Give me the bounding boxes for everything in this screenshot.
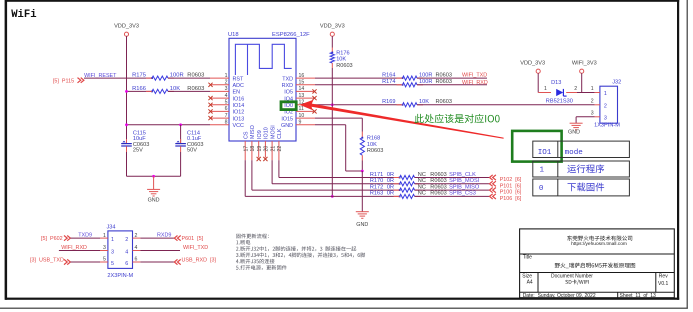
svg-text:2: 2 [604,104,607,110]
svg-text:1: 1 [604,91,607,97]
svg-text:GND: GND [568,130,580,136]
capacitor C114 [175,130,203,153]
svg-text:R163: R163 [370,191,383,197]
svg-text:R0603: R0603 [430,172,446,178]
svg-text:VDD_3V3: VDD_3V3 [320,24,345,30]
wire R168 to ground [361,161,364,212]
net label SPIB_CLK [449,172,476,178]
title label [523,255,532,261]
svg-text:P100 [6]: P100 [6] [500,190,522,196]
svg-text:22: 22 [277,146,283,152]
svg-text:D13: D13 [551,80,561,86]
resistor R171 [370,172,447,180]
net label WIFI_RESET [84,73,117,79]
svg-text:NC: NC [418,184,426,190]
resistor R166 [132,86,204,94]
port P101 [490,181,522,189]
svg-text:0R: 0R [387,184,394,190]
pin 4 J34 [133,245,141,251]
net label TXD9 [78,233,92,239]
wire R176 down to SPIB_CS3 row [331,68,334,198]
pin 13 IO4 [284,93,316,102]
svg-text:6: 6 [225,106,228,112]
wire VDD to diode [538,73,551,92]
svg-text:GND: GND [148,197,160,203]
svg-text:P102 [6]: P102 [6] [500,177,522,183]
svg-text:100R: 100R [419,79,432,85]
date cell [523,293,596,299]
svg-text:mode: mode [565,149,584,157]
svg-text:R0603: R0603 [430,178,446,184]
wire WIFI_RXD J34 [59,250,100,252]
svg-text:P601 [5]: P601 [5] [182,236,204,242]
svg-text:4: 4 [225,93,228,99]
port P102 [490,175,522,183]
pin 20 IO10 [263,127,269,161]
resistor R164 [382,72,452,80]
svg-text:2: 2 [135,233,138,239]
rev cell [658,274,669,287]
green highlight box IO0 pin [281,102,296,110]
svg-text:WIFI_TXD: WIFI_TXD [183,245,208,251]
wire USB_RXD [140,261,174,263]
svg-text:15: 15 [299,80,305,86]
pin 2 J34 [133,233,141,239]
wire R164 to WIFI_TXD [417,77,487,79]
connector J32 [594,80,621,129]
svg-text:16: 16 [299,73,305,79]
svg-text:R0603: R0603 [436,99,452,105]
svg-text:2: 2 [125,237,128,243]
svg-text:3: 3 [225,86,228,92]
svg-text:3: 3 [103,245,106,251]
pin 14 IO5 [284,86,316,95]
svg-text:RST: RST [233,76,244,82]
table row 1 run [533,161,630,177]
pin 22 CLK [277,128,283,160]
svg-text:1: 1 [540,167,545,175]
wire VDD rail vertical [126,36,128,143]
svg-text:IO5: IO5 [284,90,293,96]
svg-text:10K: 10K [367,142,377,148]
net label RXD9 [157,233,171,239]
svg-text:3: 3 [604,115,607,121]
wire diode to J32 pin 1 [577,73,595,92]
svg-text:R0603: R0603 [187,72,204,78]
resistor R170 [370,178,447,186]
pin 19 IO9 [257,130,263,161]
pin 2 J32 [591,99,600,105]
svg-text:100R: 100R [419,72,432,78]
svg-text:13: 13 [299,93,305,99]
power VDD_3V3 right [520,61,545,74]
svg-text:R0603: R0603 [367,148,383,154]
svg-text:3: 3 [591,111,594,117]
svg-text:1: 1 [225,73,228,79]
wire WIFI_TXD J34 [140,250,180,252]
connector J34 [107,225,134,279]
antenna meander [235,44,291,75]
port P115 WIFI_RESET [53,78,84,85]
svg-text:IO15: IO15 [281,116,293,122]
svg-text:R169: R169 [382,99,395,105]
svg-text:VDD_3V3: VDD_3V3 [520,61,545,67]
wire TXD row [315,77,401,79]
svg-text:J32: J32 [612,80,621,86]
wire J32 pin 3 to ground [576,117,595,123]
svg-text:R176: R176 [336,51,349,57]
svg-text:IO10: IO10 [264,127,270,139]
svg-text:6: 6 [135,257,138,263]
pin 9 GND [281,120,315,129]
net label WIFI_TXD J34 [183,245,208,251]
net label WIFI_RXD J34 [61,245,87,251]
svg-text:ADC: ADC [233,83,244,89]
net label SPIB_MOSI [449,178,480,184]
svg-text:https://yehuosm.tmall.com: https://yehuosm.tmall.com [571,241,627,247]
svg-text:TXD: TXD [282,76,293,82]
svg-text:21: 21 [270,146,276,152]
pin 5 J34 [100,257,108,263]
pin 6 IO12 [208,106,244,115]
pin 11 IO2 [284,106,316,115]
svg-text:SPIB_CS3: SPIB_CS3 [449,191,476,197]
svg-text:1X3PIN-M: 1X3PIN-M [594,123,620,129]
svg-text:100R: 100R [170,72,184,78]
svg-text:GND: GND [281,123,293,129]
svg-text:2: 2 [591,99,594,105]
svg-text:RXD9: RXD9 [157,233,171,239]
ground J32 [568,123,583,136]
pin 3 J32 [591,111,600,117]
firmware update notes [236,234,365,270]
resistor R175 [132,72,204,80]
svg-text:4: 4 [125,249,128,255]
ground middle [356,212,369,228]
svg-text:VCC: VCC [233,123,244,129]
wire SPIB_MOSI to port [415,183,490,185]
wire R166 row [125,90,152,93]
resistor R168 [360,132,383,161]
svg-text:WIFI_3V3: WIFI_3V3 [572,61,597,67]
svg-text:GND: GND [356,222,368,228]
svg-text:R0603: R0603 [436,72,452,78]
svg-text:WIFI_TXD: WIFI_TXD [462,72,487,78]
svg-text:Title: Title [523,255,532,261]
svg-text:NC: NC [418,172,426,178]
svg-text:R168: R168 [367,136,380,142]
pin 1 J32 [591,86,600,92]
svg-text:IO14: IO14 [233,103,245,109]
svg-text:Date:: Date: [523,293,535,299]
svg-text:10K: 10K [336,57,346,63]
svg-text:1: 1 [591,86,594,92]
pin 6 J34 [133,257,141,263]
pin 7 IO13 [208,113,244,122]
svg-text:R0603: R0603 [430,184,446,190]
svg-text:NC: NC [418,178,426,184]
svg-text:[3] USB_TXD: [3] USB_TXD [30,258,64,264]
port USB_TXD [30,258,70,265]
schematic title [555,263,635,269]
svg-text:RXD: RXD [282,83,293,89]
port USB_RXD [174,258,216,265]
svg-text:7: 7 [225,113,228,119]
svg-text:[5] P115: [5] P115 [53,78,74,84]
svg-text:2X3PIN-M: 2X3PIN-M [107,273,133,279]
svg-text:WIFI_RXD: WIFI_RXD [462,80,488,86]
net label SPIB_CS3 [449,191,476,197]
svg-text:4: 4 [135,245,138,251]
svg-text:IO1: IO1 [538,149,552,157]
port P100 [490,188,522,196]
net label SPIB_MISO [449,184,480,190]
svg-text:1: 1 [103,233,106,239]
svg-text:R166: R166 [132,86,146,92]
pin 10 IO15 [281,113,315,122]
red arrow annotation [300,100,504,139]
svg-text:U18: U18 [228,32,239,38]
ground capacitors [147,189,160,203]
svg-text:5: 5 [103,257,106,263]
svg-text:50V: 50V [187,148,197,154]
svg-text:0R: 0R [387,191,394,197]
svg-text:SPIB_MISO: SPIB_MISO [449,184,480,190]
wire SPIB_CS3 row [245,160,398,196]
svg-text:USB_RXD [3]: USB_RXD [3] [182,258,217,264]
svg-text:VDD_3V3: VDD_3V3 [114,24,139,30]
svg-text:R170: R170 [370,178,383,184]
svg-text:1: 1 [111,237,114,243]
svg-text:14: 14 [299,86,305,92]
svg-text:RB521S30: RB521S30 [546,99,573,105]
port P601 [174,236,203,242]
document number cell [551,274,593,285]
svg-text:3: 3 [111,249,114,255]
svg-text:6: 6 [125,261,128,267]
svg-text:IO9: IO9 [257,130,263,139]
svg-text:0R: 0R [387,178,394,184]
resistor R163 [370,191,447,199]
resistor R169 [382,99,452,107]
svg-text:P106 [6]: P106 [6] [500,196,522,202]
company name [567,236,632,241]
ic U18 ESP8266_12F [228,32,310,141]
svg-text:P101 [6]: P101 [6] [500,183,522,189]
pin 8 VCC [210,120,244,129]
wire R166 to pin 3 [168,90,210,92]
svg-text:NC: NC [418,191,426,197]
pin 1 RST [210,73,244,82]
pin 2 ADC [208,80,244,89]
svg-text:10: 10 [299,113,305,119]
svg-text:IO0: IO0 [284,103,293,109]
net label WIFI_RXD [462,80,488,86]
wire USB_TXD [71,261,101,263]
svg-text:SPIB_CLK: SPIB_CLK [449,172,476,178]
size cell [522,274,533,286]
svg-text:CS: CS [243,131,249,139]
svg-text:5: 5 [111,261,114,267]
wire caps to ground [127,152,181,189]
wire SPIB_CLK row [279,160,399,177]
svg-text:[5] P602: [5] P602 [41,236,63,242]
title block [520,229,675,298]
wire GND pin routing [315,125,362,171]
pin 4 IO16 [208,93,244,102]
wire SPIB_MISO to port [415,189,490,191]
svg-text:MOSI: MOSI [270,125,276,139]
green annotation text [415,114,500,123]
wire R174 to WIFI_RXD [417,84,487,86]
svg-text:19: 19 [257,146,263,152]
wire SPIB_MISO row [252,160,399,190]
wire RXD row [315,84,401,86]
port P602 [41,236,70,242]
sheet cell [620,293,657,299]
net label WIFI_TXD [462,72,487,78]
wire SPIB_CLK to port [415,177,490,179]
svg-text:17: 17 [243,146,249,152]
svg-text:2: 2 [225,80,228,86]
wire RXD9 [140,237,174,239]
pin 15 RXD [282,80,315,89]
wire SPIB_CS3 to port [415,195,490,197]
wire C114 drop [180,125,182,144]
svg-text:A4: A4 [527,280,533,286]
pin 18 MISO [250,125,256,160]
capacitor C115 [121,130,149,153]
svg-text:18: 18 [250,146,256,152]
pin 3 EN [210,86,240,95]
pin 17 CS [243,131,249,160]
svg-text:9: 9 [299,120,302,126]
wire WIFI_RESET [84,77,152,79]
svg-text:ESP8266_12F: ESP8266_12F [272,32,310,38]
svg-text:1: 1 [544,86,547,92]
svg-text:0: 0 [539,185,544,193]
svg-text:R0603: R0603 [336,63,352,69]
svg-text:20: 20 [264,146,270,152]
diode D13 RB521S30 [544,80,577,104]
power WIFI_3V3 [572,61,597,74]
wire R175 to pin 1 [168,77,210,79]
svg-text:5: 5 [225,100,228,106]
pin 3 J34 [100,245,108,251]
svg-text:IO13: IO13 [233,116,245,122]
svg-text:R175: R175 [132,72,146,78]
svg-text:Sheet 11 of 13: Sheet 11 of 13 [620,293,657,299]
svg-text:EN: EN [233,90,241,96]
svg-text:R174: R174 [382,79,395,85]
pin 1 J34 [100,233,108,239]
wire TXD9 [71,237,101,239]
wire IO0 row [315,103,401,106]
svg-text:Document Number: Document Number [551,274,593,280]
power VDD_3V3 left [114,24,139,37]
power VDD_3V3 middle [320,24,345,37]
wire VCC rail [125,123,210,126]
svg-text:11: 11 [299,106,304,112]
sheet title WiFi [11,9,36,21]
pin 12 IO0 [284,100,315,109]
svg-text:R172: R172 [370,184,383,190]
svg-text:R0603: R0603 [430,191,446,197]
svg-text:R164: R164 [382,72,395,78]
svg-text:CLK: CLK [277,128,283,139]
svg-text:8: 8 [225,120,228,126]
wire IO0 to J32 pin 2 [417,104,595,106]
svg-text:R0603: R0603 [436,79,452,85]
svg-text:IO12: IO12 [233,110,245,116]
resistor R176 [330,36,352,69]
svg-text:R171: R171 [370,172,383,178]
resistor R174 [382,79,452,87]
wire SPIB_MOSI row [272,160,398,184]
table row 0 download [533,179,630,196]
svg-text:25V: 25V [133,148,143,154]
svg-text:SPIB_MOSI: SPIB_MOSI [449,178,480,184]
svg-text:10K: 10K [419,99,429,105]
svg-text:J34: J34 [107,225,116,231]
svg-text:IO16: IO16 [233,96,245,102]
wire IO15 to R168 [315,118,362,131]
table IO1 mode [533,141,630,157]
svg-text:WiFi: WiFi [11,9,36,21]
svg-text:Sunday, October 09, 2022: Sunday, October 09, 2022 [538,293,596,299]
svg-text:0R: 0R [387,172,394,178]
resistor R172 [370,184,447,192]
company url [571,241,627,247]
svg-text:MISO: MISO [250,125,256,139]
svg-text:V0.1: V0.1 [658,281,669,287]
pin 5 IO14 [208,100,244,109]
svg-text:Rev: Rev [659,274,668,280]
pin 16 TXD [282,73,315,82]
port P106 [490,194,522,202]
green highlight box table [512,131,561,162]
pin 21 MOSI [270,125,276,160]
svg-text:2: 2 [574,86,577,92]
